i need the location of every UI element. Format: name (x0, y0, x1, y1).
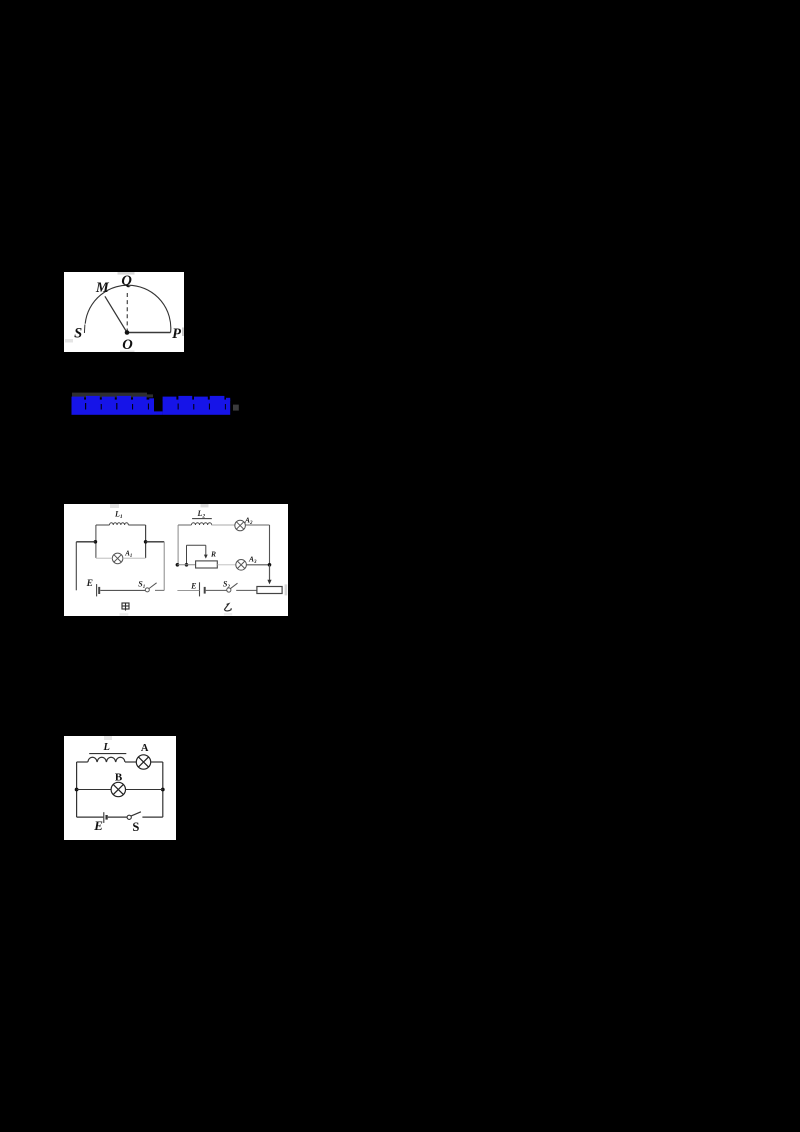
svg-text:B: B (115, 771, 123, 783)
node dot 2 (185, 563, 189, 567)
radius line O-M (105, 296, 127, 332)
svg-text:A3: A3 (248, 555, 257, 566)
bottom wire left (77, 816, 104, 818)
node dot right (268, 563, 272, 567)
wire battery to switch (108, 816, 127, 818)
battery plates (199, 582, 201, 596)
middle wire lamp B to right (126, 789, 163, 791)
slider arrow down (205, 545, 207, 555)
figure: circuit L A B E S (64, 736, 176, 840)
dashed line O-Q (126, 290, 128, 332)
wire battery left (177, 589, 199, 591)
wire rheostat to lamp A3 (217, 564, 236, 566)
gray mark after link (233, 405, 239, 411)
figure: sector diagram OMQSP (64, 272, 184, 352)
scan smudge under O (120, 351, 135, 352)
scan smudge top right circuit (201, 504, 209, 507)
dark slits inside text blob (85, 403, 226, 410)
dark gray strip above text (72, 393, 147, 398)
wire top left (96, 524, 110, 526)
smudge under jia (120, 613, 129, 616)
wire left vertical (177, 525, 179, 565)
center dot O (125, 330, 130, 335)
figure: circuits jia & yi (64, 504, 288, 616)
lamp A (136, 755, 150, 769)
node dot right (161, 788, 165, 792)
radius line O-P (127, 332, 171, 334)
slider bracket vertical left (186, 545, 188, 565)
blue text group 1 body (72, 400, 155, 415)
wire right vertical of parallel pair (145, 525, 147, 558)
svg-text:S1: S1 (138, 579, 145, 590)
middle wire left to lamp B (77, 789, 111, 791)
svg-text:A: A (141, 743, 149, 754)
right vertical wire (162, 762, 164, 817)
wire battery to switch (100, 589, 145, 591)
svg-text:L1: L1 (114, 510, 123, 520)
bottom resistor box (257, 587, 282, 594)
switch S (127, 815, 131, 819)
wire lamp branch right (123, 557, 146, 559)
wire left down to battery (75, 542, 77, 591)
blue text group 1 char tops (72, 396, 155, 401)
svg-text:E: E (86, 579, 93, 589)
wire lamp A3 to node (246, 564, 269, 566)
svg-text:A1: A1 (124, 550, 132, 560)
inductor L coil (loops) (88, 757, 125, 762)
rheostat R box (196, 561, 218, 568)
wire right vertical (269, 525, 271, 565)
slider bracket horizontal (187, 544, 206, 546)
scan smudge top left circuit (110, 504, 119, 508)
scan smudge bottom-left (65, 339, 73, 343)
wire stub right of node (146, 541, 165, 543)
left vertical wire (76, 762, 78, 817)
wire top right (128, 524, 145, 526)
scan smudge top (104, 736, 112, 740)
wire lamp A to right (151, 761, 163, 763)
svg-text:S: S (132, 820, 139, 834)
lamp A3 (236, 560, 247, 571)
lamp A1 (112, 553, 123, 564)
tick at S end of arc (83, 325, 86, 334)
wire lamp branch left (96, 557, 112, 559)
wire coil to lamp A (125, 761, 136, 763)
wire down with arrow into bottom resistor (269, 565, 271, 581)
underline under L (89, 753, 126, 755)
blue text group 2 body (163, 400, 231, 415)
arc S to P (85, 285, 171, 332)
wire battery to switch (206, 589, 228, 591)
node dot 1 (176, 563, 180, 567)
blue text group 2 char tops (163, 396, 231, 401)
node dot left (75, 788, 79, 792)
blue underline spanning gap (154, 411, 163, 414)
wire top: left corner to coil (178, 524, 191, 526)
scan smudge right edge (285, 584, 288, 595)
wire top: coil to lamp A2 (211, 524, 234, 526)
inductor L2 coil (191, 523, 211, 525)
wire lamp A2 to right corner (245, 524, 269, 526)
wire left vertical of parallel pair (95, 525, 97, 558)
lamp B (111, 782, 125, 796)
svg-text:R: R (210, 549, 216, 558)
svg-text:S2: S2 (223, 579, 230, 590)
svg-text:A2: A2 (244, 516, 253, 527)
wire stub left of node (76, 541, 95, 543)
underline under L2 (192, 518, 212, 520)
wire top left (77, 761, 88, 763)
wire right down to switch (163, 542, 165, 591)
battery E plates (96, 584, 98, 596)
node dot right (144, 540, 148, 544)
lamp A2 (235, 520, 246, 531)
smudge under yi (224, 613, 232, 616)
blue heading (blurred chinese link) (0, 0, 1, 1)
svg-text:E: E (93, 818, 103, 833)
svg-text:L: L (102, 742, 109, 753)
switch S2 (227, 588, 231, 592)
svg-text:E: E (190, 581, 196, 590)
scan smudge top (118, 272, 135, 275)
label jia (CJK drawn) (122, 603, 129, 611)
switch S1 (145, 588, 149, 592)
label yi (CJK drawn) (225, 604, 232, 611)
node dot left (94, 540, 98, 544)
scan smudge right edge (182, 328, 184, 337)
wire node to rheostat (177, 564, 195, 566)
battery E plates (103, 812, 105, 823)
inductor L1 coil (110, 523, 129, 525)
